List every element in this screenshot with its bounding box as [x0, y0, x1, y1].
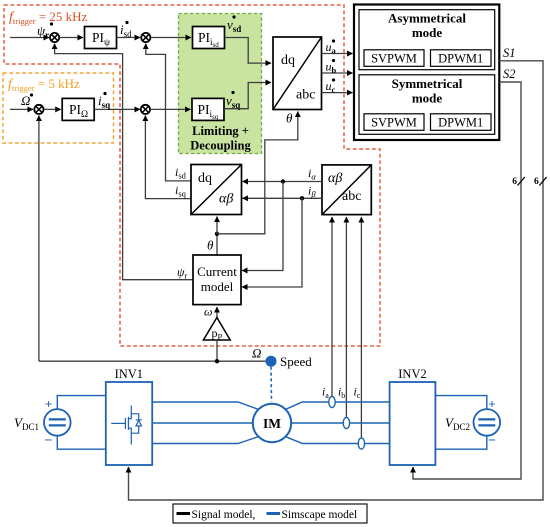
svg-text:mode: mode: [412, 91, 443, 106]
svg-text:αβ: αβ: [219, 192, 233, 207]
legend simscape model sample line: [267, 512, 281, 515]
svg-text:6: 6: [534, 177, 539, 187]
wire u_c*: [322, 92, 353, 94]
wire V_DC1 minus to INV1: [57, 436, 106, 450]
svg-text:−: −: [488, 434, 496, 449]
alphabeta to abc block: [322, 165, 371, 215]
bus marker 6 on S2: [518, 177, 525, 186]
Asymmetrical mode box: [359, 10, 495, 70]
wire phase c INV1 to IM: [152, 437, 258, 444]
wire PI_psi to J2: [117, 37, 141, 39]
DPWM1 box 1: [431, 50, 492, 67]
wire i_c measurement to alphabeta/abc: [360, 217, 362, 438]
summing junction J2 isd: [141, 33, 150, 42]
svg-text:Symmetrical: Symmetrical: [392, 76, 463, 91]
wire PI_isd to dq/abc input1: [225, 38, 272, 64]
wire i_b measurement to alphabeta/abc: [345, 217, 347, 418]
SVPWM box 2: [364, 114, 424, 131]
summing junction J1 flux: [50, 33, 59, 42]
wire i_beta to current model: [242, 198, 302, 287]
svg-text:DPWM1: DPWM1: [438, 52, 483, 66]
inverter INV2: [390, 382, 436, 465]
wire phase c IM to INV2: [286, 437, 390, 444]
svg-text:S2: S2: [503, 67, 516, 81]
DC source V_DC1: [44, 409, 71, 436]
svg-text:abc: abc: [342, 189, 361, 204]
svg-text:θ: θ: [286, 111, 293, 126]
node dot theta: [215, 232, 219, 236]
summing junction J4 isq: [141, 105, 150, 114]
wire INV2 to V_DC2 minus: [435, 436, 486, 450]
svg-text:Simscape model: Simscape model: [282, 509, 358, 521]
current sensor i_a: [329, 396, 335, 407]
wire psi_r* input: [10, 37, 49, 39]
svg-text:+: +: [488, 397, 495, 412]
current model block: [193, 255, 241, 305]
svg-text:Ω: Ω: [21, 93, 30, 108]
wire J4 to PI_isq: [150, 108, 190, 110]
PI_Omega block: [62, 98, 94, 120]
svg-text:−: −: [45, 434, 53, 449]
dashed frame f_trigger 25 kHz: [4, 5, 380, 346]
mosfet symbol INV1: [111, 406, 142, 445]
limiting decoupling green box: [179, 14, 262, 154]
svg-text:model: model: [201, 279, 234, 294]
svg-text:SVPWM: SVPWM: [371, 52, 417, 66]
wire phase b IM to INV2: [291, 422, 389, 424]
wire PI_Omega to J4: [94, 108, 140, 110]
svg-text:S1: S1: [503, 46, 516, 60]
speed feedback wire: [38, 116, 40, 362]
wire S2: [413, 82, 521, 479]
wire phase a INV1 to IM: [152, 402, 258, 409]
svg-text:ω: ω: [204, 305, 212, 319]
i_sq feedback wire: [145, 116, 191, 199]
Symmetrical mode box: [359, 75, 495, 135]
svg-text:INV2: INV2: [398, 367, 426, 381]
wire phase b INV1 to IM: [152, 422, 253, 424]
current sensor i_b: [343, 417, 349, 428]
current sensor i_c: [358, 438, 364, 449]
wire i_alpha: [243, 181, 323, 183]
svg-text:Current: Current: [197, 264, 237, 279]
svg-text:Asymmetrical: Asymmetrical: [388, 11, 466, 26]
speed line: [39, 360, 266, 362]
theta wire from current model: [216, 234, 218, 255]
wire J2 to PI_isd: [151, 37, 191, 39]
mosfet symbol INV2: [395, 406, 426, 445]
svg-text:dq: dq: [198, 171, 212, 186]
svg-text:abc: abc: [296, 88, 315, 103]
PI_isd block: [193, 27, 225, 49]
wire INV2 to V_DC2 plus: [435, 396, 486, 410]
p_P gain triangle: [203, 318, 230, 341]
bus marker 6 on S1: [539, 177, 546, 186]
SVPWM box 1: [364, 50, 424, 67]
PI_psi block: [85, 27, 117, 49]
svg-text:Decoupling: Decoupling: [190, 139, 251, 153]
PI_isq block: [192, 98, 224, 120]
wire i_beta: [243, 197, 323, 199]
dq to abc transform block: [273, 37, 322, 110]
wire V_DC1 plus to INV1: [57, 396, 106, 410]
svg-text:Signal model,: Signal model,: [192, 509, 256, 521]
node dot i_beta: [300, 196, 304, 200]
wire i_a measurement to alphabeta/abc: [331, 217, 333, 397]
svg-text:IM: IM: [263, 416, 281, 431]
svg-text:αβ: αβ: [328, 171, 342, 186]
wire PI_isq to dq/abc input2: [224, 83, 271, 109]
wire J1 to PI_psi: [60, 37, 84, 39]
PWM outer block: [354, 5, 499, 141]
wire J3 to PI_Omega: [44, 108, 61, 110]
legend signal model sample line: [177, 512, 191, 515]
node dot speed tap: [215, 359, 219, 363]
svg-text:Limiting +: Limiting +: [192, 124, 249, 138]
dq to alphabeta block: [191, 165, 242, 215]
dashed speed link to IM: [270, 367, 273, 402]
svg-text:dq: dq: [281, 53, 295, 68]
svg-text:6: 6: [512, 177, 517, 187]
svg-text:SVPWM: SVPWM: [371, 116, 417, 130]
wire S1: [129, 61, 544, 500]
DPWM1 box 2: [431, 114, 492, 131]
speed terminal dot: [266, 356, 277, 367]
node dot i_alpha: [281, 179, 285, 183]
wire u_a*: [322, 53, 353, 55]
dashed frame f_trigger 5 kHz: [3, 73, 114, 143]
wire phase a IM to INV2: [286, 402, 390, 409]
induction machine IM: [253, 404, 291, 442]
svg-text:+: +: [45, 397, 52, 412]
svg-text:DPWM1: DPWM1: [438, 116, 483, 130]
i_sd feedback wire: [146, 44, 191, 181]
svg-text:mode: mode: [412, 25, 443, 40]
svg-text:θ: θ: [207, 238, 214, 253]
wire Omega* input: [10, 108, 33, 110]
wire speed to p_P: [216, 340, 218, 361]
omega wire p_P to current model: [216, 307, 218, 318]
theta wire to dq/abc: [217, 112, 298, 234]
DC source V_DC2: [474, 409, 501, 436]
inverter INV1: [106, 382, 152, 465]
wire u_b*: [322, 72, 353, 74]
svg-text:Speed: Speed: [280, 354, 312, 369]
summing junction J3 speed: [34, 105, 43, 114]
svg-text:INV1: INV1: [115, 367, 143, 381]
legend box: [173, 504, 367, 523]
wire i_alpha to current model: [242, 182, 283, 271]
svg-text:Ω: Ω: [252, 346, 261, 361]
psi_r feedback wire: [55, 44, 193, 280]
theta wire to dq/alphabeta: [216, 217, 218, 234]
